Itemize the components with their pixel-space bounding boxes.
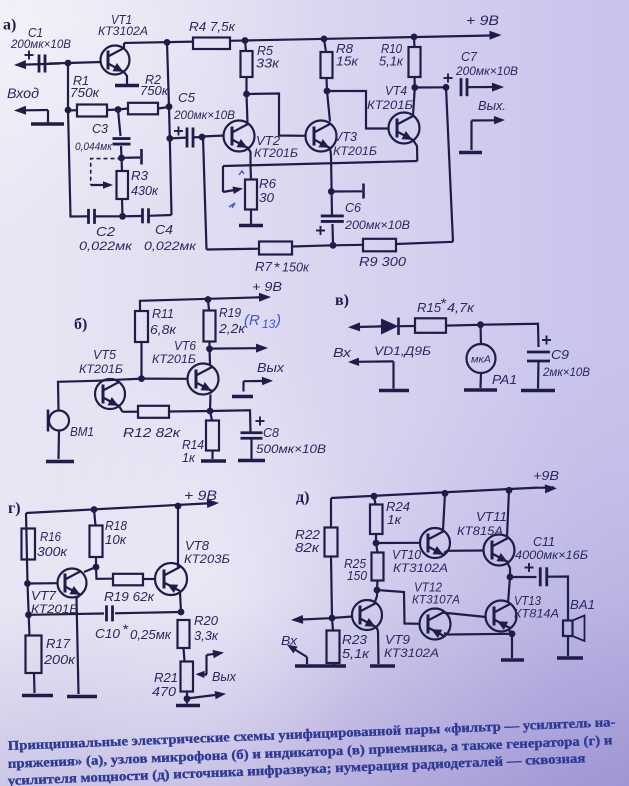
svg-text:2,2к: 2,2к: [218, 321, 246, 336]
wire meter riser: [479, 325, 482, 344]
wire VT4 collector: [413, 88, 415, 117]
wire R10 bottom: [413, 77, 415, 88]
svg-text:R19 62к: R19 62к: [104, 589, 155, 604]
wire VT9 emitter: [376, 626, 379, 664]
svg-text:в): в): [335, 292, 349, 309]
wire +9V rail segment a: [124, 42, 193, 43]
wire bottom feedback row: [207, 248, 260, 251]
node C10 right: [178, 609, 185, 616]
wire node to VT3 base: [247, 94, 306, 136]
node VT3 collector: [324, 88, 331, 95]
wire R3 top: [120, 158, 123, 171]
svg-text:C5: C5: [178, 90, 196, 105]
resistor R24: [370, 505, 383, 535]
svg-text:C10: C10: [95, 626, 121, 641]
svg-text:R18: R18: [105, 518, 128, 533]
svg-text:мкА: мкА: [471, 355, 491, 366]
node VT2 base: [199, 134, 206, 141]
wire VT11 collector: [507, 490, 509, 537]
wire BM1 riser: [58, 381, 96, 410]
ground R14: [201, 459, 226, 463]
svg-text:0,044мк: 0,044мк: [75, 141, 113, 153]
wire VT11 emitter: [507, 562, 510, 577]
ground meter: [464, 388, 497, 392]
transistor VT12: [420, 609, 451, 640]
ground R21: [176, 704, 200, 708]
node VT10 collector: [442, 490, 449, 497]
wire VT2 emitter to R6: [249, 165, 252, 180]
microphone BM1: [49, 411, 69, 431]
resistor R1: [77, 105, 107, 117]
svg-text:VT3: VT3: [334, 129, 358, 144]
wire C8 to ground: [250, 439, 252, 460]
svg-text:82к: 82к: [295, 540, 320, 555]
svg-text:КТ203Б: КТ203Б: [184, 552, 230, 566]
svg-text:VT5: VT5: [93, 347, 117, 362]
wire node to VT6 base: [142, 378, 188, 380]
ground input d: [295, 664, 322, 668]
resistor R6: [245, 180, 257, 210]
input arrow Вход lower with ground: [17, 109, 48, 112]
resistor R15: [415, 318, 446, 333]
resistor R12: [138, 406, 169, 418]
wire BM1 to ground: [57, 431, 60, 460]
resistor R17: [26, 636, 42, 674]
wire VT13 top to output node: [508, 577, 510, 603]
wire C7 node link: [415, 86, 446, 88]
svg-text:R15: R15: [417, 300, 442, 315]
ground input v: [379, 389, 409, 393]
svg-text:150: 150: [347, 568, 368, 583]
+9V arrow d: [545, 484, 557, 493]
wire C3 to R3: [120, 146, 123, 158]
wire R24 to node: [375, 534, 377, 543]
R21 wiper arrow: [198, 673, 207, 675]
svg-text:*: *: [440, 295, 447, 311]
wire R11 bottom: [140, 342, 142, 379]
svg-text:VD1,Д9Б: VD1,Д9Б: [374, 344, 431, 358]
resistor R16: [22, 529, 36, 560]
svg-text:BA1: BA1: [570, 597, 595, 612]
node rail to R2 branch: [164, 39, 171, 46]
svg-text:КТ201Б: КТ201Б: [254, 146, 298, 160]
svg-text:КТ3102А: КТ3102А: [384, 646, 439, 660]
wire VT13 bottom: [508, 629, 512, 634]
svg-text:VT8: VT8: [185, 538, 210, 553]
wire VT6 emitter: [209, 395, 212, 412]
svg-text:а): а): [3, 17, 16, 34]
wire VT2 base: [202, 136, 225, 137]
svg-text:C7: C7: [461, 49, 478, 64]
wire C1 to node: [49, 62, 68, 65]
input arrow d: [294, 618, 330, 620]
wire C4 to right vertical: [149, 214, 172, 217]
speaker BA1: [563, 621, 573, 637]
svg-text:C8: C8: [263, 425, 280, 440]
diode VD1: [381, 319, 399, 335]
wire C5 branch to plate: [170, 137, 187, 140]
svg-text:C4: C4: [155, 222, 173, 237]
svg-text:5,1к: 5,1к: [342, 646, 370, 661]
wire node to VT9 base: [332, 617, 353, 619]
svg-text:VT6: VT6: [174, 338, 197, 353]
svg-text:200к: 200к: [43, 652, 76, 667]
output arrow Vykh a: [467, 86, 493, 88]
wire node to C4: [123, 215, 143, 218]
resistor R3 trimmer: [117, 171, 129, 199]
svg-text:1к: 1к: [182, 450, 196, 465]
wire VT5 emitter: [119, 406, 123, 412]
node C7 left: [443, 84, 450, 91]
+9V arrow g: [207, 499, 219, 508]
resistor R21: [181, 662, 194, 692]
svg-text:C11: C11: [533, 534, 555, 549]
wire VT12 emitter line: [444, 633, 512, 635]
transistor VT9: [352, 600, 382, 630]
svg-text:VT11: VT11: [476, 509, 507, 524]
svg-text:+ 9В: + 9В: [252, 279, 282, 294]
transistor VT3: [306, 121, 337, 152]
capacitor C3: [113, 137, 131, 140]
wire R12 to node: [169, 410, 210, 413]
wire R6 to ground: [250, 210, 252, 225]
wire common emitter line: [223, 161, 417, 166]
svg-text:4,7к: 4,7к: [447, 300, 475, 315]
wire VT10 collector: [443, 493, 445, 530]
capacitor C2: [87, 209, 90, 224]
svg-text:6,8к: 6,8к: [150, 322, 177, 337]
wire R22 riser: [330, 498, 332, 528]
node VT7 base: [24, 580, 31, 587]
ground VT9: [370, 664, 395, 668]
svg-text:R12 82к: R12 82к: [123, 425, 181, 440]
wire meter to ground: [479, 373, 482, 389]
svg-text:5,1к: 5,1к: [379, 54, 404, 69]
wire R15 to node: [446, 324, 480, 327]
ground C9: [521, 389, 555, 393]
wire node to C8: [210, 410, 251, 431]
wire R20 R21 link: [184, 648, 185, 662]
wire C6 node to R9: [333, 244, 363, 247]
wire VT7 collector: [84, 567, 96, 572]
resistor R19g: [113, 574, 143, 586]
svg-text:470: 470: [152, 684, 177, 699]
ground R6: [239, 224, 263, 228]
wire C5 branch to C4: [170, 138, 172, 215]
wire R6 wiper L: [222, 166, 224, 192]
svg-text:R16: R16: [40, 529, 62, 544]
svg-text:13: 13: [262, 317, 276, 331]
svg-text:BM1: BM1: [70, 424, 94, 439]
wire C9 to ground: [537, 361, 540, 389]
svg-text:R6: R6: [259, 176, 277, 191]
wire C10 line right: [115, 612, 181, 613]
svg-text:+ 9В: + 9В: [466, 12, 499, 28]
capacitor C6: [321, 215, 344, 218]
svg-text:КТ201Б: КТ201Б: [152, 352, 196, 366]
svg-text:+ 9В: + 9В: [184, 487, 217, 503]
svg-text:430к: 430к: [131, 183, 159, 198]
wire VT1 emitter to ground: [124, 72, 127, 84]
wire R3 bottom: [121, 199, 124, 216]
transistor VT8: [155, 563, 187, 595]
wire VT10 emitter to VT11 base: [444, 551, 484, 554]
node output d: [507, 574, 514, 581]
input lower terminal d: [294, 649, 307, 657]
wire C2 to node: [95, 215, 123, 217]
node R24 top: [371, 493, 378, 500]
svg-text:VT10: VT10: [392, 547, 422, 562]
output arrow g lower: [187, 695, 215, 699]
wire VT3 collector: [327, 91, 330, 122]
svg-text:VT7: VT7: [31, 588, 57, 603]
wire +9V rail g: [26, 504, 205, 514]
transistor VT6: [188, 364, 219, 395]
wire VT3 emitter down: [330, 148, 332, 216]
wire C6 to bottom row: [331, 224, 334, 245]
wire R7 to C6 node: [292, 245, 333, 246]
svg-text:Вход: Вход: [7, 85, 39, 101]
resistor R2: [128, 103, 158, 115]
node R5 top: [242, 37, 249, 44]
node R1 R2 junction: [115, 106, 122, 113]
transistor VT13: [486, 601, 517, 632]
capacitor C9: [527, 351, 550, 354]
svg-text:КТ3107А: КТ3107А: [412, 593, 460, 607]
svg-text:200мк×10В: 200мк×10В: [344, 218, 410, 232]
svg-text:500мк×10В: 500мк×10В: [256, 442, 326, 456]
wire VT4 emitter down: [413, 140, 417, 161]
svg-text:0,022мк: 0,022мк: [144, 239, 197, 253]
wire stub to open bar a2: [331, 190, 362, 192]
svg-text:150к: 150к: [282, 260, 310, 275]
svg-text:200мк×10В: 200мк×10В: [10, 37, 71, 51]
input arrow Vkh v: [351, 325, 392, 328]
wire R19b to VT6 collector: [208, 349, 211, 365]
wire R23 to ground: [332, 663, 335, 665]
wire C5 to VT2 base node: [193, 136, 202, 139]
blue pen mark near R6: [239, 171, 244, 175]
wire base VT1: [68, 62, 101, 63]
resistor R18: [90, 526, 103, 558]
capacitor C8: [241, 431, 263, 434]
svg-text:4000мк×16Б: 4000мк×16Б: [515, 548, 588, 562]
node VT2 collector: [243, 91, 250, 98]
wire C3 branch down: [118, 110, 121, 137]
svg-text:г): г): [8, 500, 21, 517]
node R18 bottom: [93, 564, 100, 571]
transistor VT4: [389, 113, 420, 144]
wire node to C9 corner: [481, 324, 539, 347]
wire VT8 emitter: [180, 592, 181, 612]
wire ground node down: [511, 634, 513, 658]
svg-text:300к: 300к: [37, 544, 68, 559]
node R19b top: [205, 296, 212, 303]
resistor R10: [409, 47, 421, 77]
resistor R14: [206, 421, 219, 451]
meter PA1: [467, 344, 496, 373]
svg-text:0,022мк: 0,022мк: [79, 239, 133, 253]
ground input: [31, 122, 64, 126]
wire speaker to ground: [567, 636, 569, 656]
node VT11 collector: [506, 487, 513, 494]
node C6 bottom: [330, 242, 337, 249]
svg-text:0,25мк: 0,25мк: [130, 627, 172, 642]
svg-text:R20: R20: [194, 613, 219, 628]
wire +9V rail d: [331, 488, 538, 498]
input lower terminal v: [354, 360, 394, 363]
transistor VT2: [224, 121, 255, 152]
resistor R4: [193, 38, 230, 50]
output lower terminal a: [472, 119, 496, 121]
svg-text:R9 300: R9 300: [359, 254, 407, 269]
ground BM1: [46, 460, 74, 464]
capacitor C10: [105, 605, 108, 621]
capacitor C11: [539, 567, 542, 586]
svg-text:1к: 1к: [387, 512, 402, 527]
svg-text:КТ815А: КТ815А: [457, 524, 503, 538]
node emitter junction b: [207, 408, 214, 415]
resistor R25: [372, 553, 384, 581]
wire VT8 collector: [177, 506, 179, 567]
ground VT1 emitter: [115, 84, 139, 88]
wire left vertical input node down: [67, 63, 69, 110]
svg-text:КТ3102А: КТ3102А: [98, 24, 148, 38]
wire node to R19g: [96, 567, 113, 579]
wire VT1 collector to rail: [123, 43, 125, 48]
wire R17 to ground: [33, 673, 36, 693]
svg-text:C9: C9: [551, 347, 570, 362]
node C6 tap: [328, 188, 335, 195]
ground output a: [459, 151, 482, 155]
ground R23: [322, 664, 346, 668]
svg-text:C3: C3: [92, 121, 109, 136]
svg-text:200мк×10В: 200мк×10В: [455, 64, 518, 78]
node C2 C4 R3: [119, 213, 126, 220]
transistor VT1: [101, 46, 130, 75]
wire node to VT4 base: [327, 91, 389, 129]
resistor R7: [259, 242, 292, 255]
resistor R5: [241, 51, 253, 77]
resistor R19b: [204, 311, 216, 342]
svg-text:VT9: VT9: [385, 632, 411, 647]
resistor R20: [178, 620, 190, 648]
svg-text:2мк×10В: 2мк×10В: [542, 365, 590, 379]
node input d: [329, 615, 336, 622]
svg-text:15к: 15к: [336, 54, 359, 69]
wire C11 to speaker corner: [547, 577, 568, 621]
svg-text:R17: R17: [46, 636, 71, 651]
node R11 bottom: [138, 375, 145, 382]
svg-text:R19: R19: [219, 305, 242, 320]
wire R5 bottom to node: [245, 77, 247, 94]
wire R21 bottom: [186, 692, 188, 699]
svg-text:30: 30: [259, 190, 275, 205]
wire R2 right to C5 branch: [168, 107, 171, 139]
wire R8 bottom: [325, 78, 328, 91]
svg-text:VT4: VT4: [385, 83, 407, 98]
svg-text:PA1: PA1: [492, 372, 517, 387]
input arrow Вход upper: [17, 64, 60, 65]
node R18 top: [91, 506, 98, 513]
svg-text:R11: R11: [152, 306, 174, 321]
node C3 R3: [118, 155, 125, 162]
svg-text:200мк×10В: 200мк×10В: [173, 108, 235, 122]
svg-text:3,3к: 3,3к: [194, 628, 219, 643]
wire left vertical g: [26, 513, 30, 636]
wire R25 node to VT12: [377, 590, 420, 624]
node R1 left: [65, 107, 72, 114]
ground VT7: [67, 695, 97, 699]
wire VT2 emitter down: [248, 148, 251, 165]
capacitor C4: [141, 208, 144, 223]
svg-text:750к: 750к: [70, 85, 100, 100]
wire R19g to VT8 base: [143, 578, 156, 580]
svg-text:б): б): [74, 316, 87, 333]
svg-text:д): д): [296, 489, 309, 506]
resistor R9: [363, 239, 396, 252]
wire R9 to right riser: [396, 242, 453, 244]
node A base VT1: [65, 60, 72, 67]
svg-text:R3: R3: [131, 168, 149, 183]
svg-text:+9В: +9В: [533, 468, 559, 483]
transistor VT5: [95, 379, 125, 409]
open terminal bar a2: [362, 184, 365, 199]
wire node to VT10 base: [376, 542, 421, 544]
wire R14 to ground: [211, 451, 213, 460]
output tap arrow b: [210, 347, 258, 350]
node R8 top: [321, 36, 328, 43]
svg-text:10к: 10к: [105, 532, 127, 547]
wire rail R4 to arrow: [230, 35, 497, 40]
output step b: [244, 380, 263, 382]
wire VT12 collector to VT13 base: [442, 613, 486, 618]
svg-text:КТ201Б: КТ201Б: [333, 144, 377, 158]
wire emitter line to R12: [123, 411, 139, 413]
capacitor C7: [460, 78, 463, 96]
node VT12 VT13 ground: [509, 630, 516, 637]
capacitor C1: [38, 55, 41, 73]
ground VT13: [501, 658, 524, 662]
svg-text:Вых: Вых: [212, 669, 237, 684]
svg-text:Вх: Вх: [333, 345, 353, 360]
wire vertical rail to R2C5: [167, 42, 169, 106]
svg-text:Вых: Вых: [257, 360, 285, 375]
node C5 branch: [166, 135, 173, 142]
svg-text:C6: C6: [345, 200, 362, 215]
node VT4 collector C7: [411, 84, 418, 91]
svg-text:C2: C2: [96, 224, 116, 239]
wire diode to R15: [399, 325, 416, 327]
node meter top: [477, 321, 484, 328]
+9V arrow a: [489, 31, 501, 40]
svg-text:Вых.: Вых.: [478, 98, 506, 113]
wire collector line VT5 to R11: [96, 379, 142, 381]
ground R17: [22, 694, 53, 698]
ground speaker: [557, 656, 583, 660]
open terminal bar a1: [140, 149, 143, 165]
transistor VT10: [420, 528, 450, 558]
svg-text:R4 7,5к: R4 7,5к: [189, 19, 236, 34]
wire VT2 collector: [247, 94, 248, 124]
dashed coupling to R3: [91, 159, 122, 185]
node R25 bottom: [374, 587, 381, 594]
wire output to C11: [510, 576, 537, 578]
wire feedback vertical R7: [203, 137, 207, 250]
svg-text:*: *: [122, 621, 129, 637]
svg-text:*: *: [274, 259, 281, 275]
wire diode anode: [378, 325, 381, 327]
